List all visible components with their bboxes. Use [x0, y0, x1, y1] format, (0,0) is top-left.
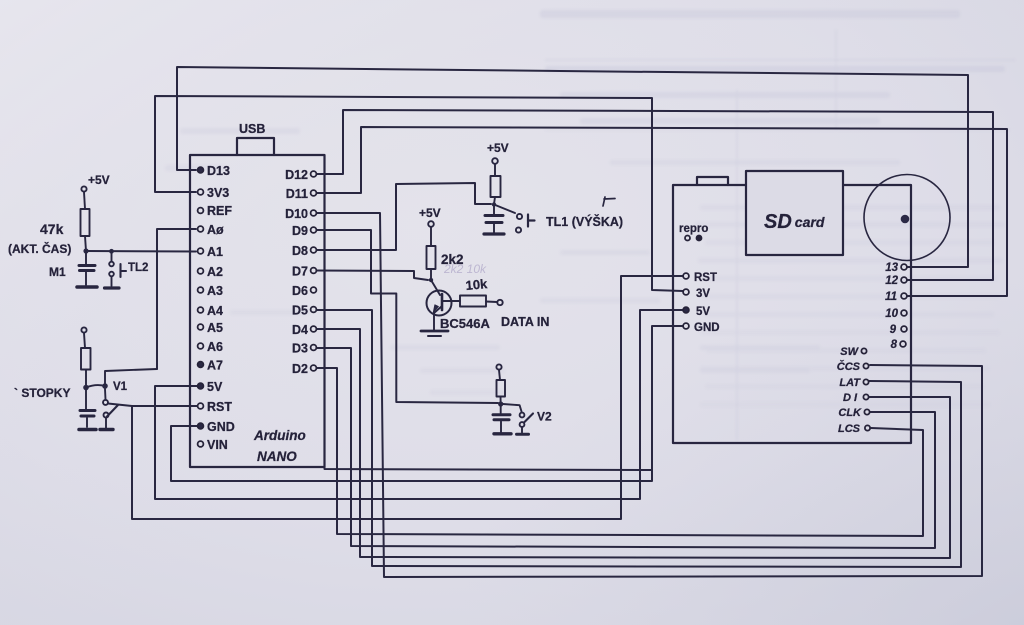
svg-text:GND: GND: [207, 420, 235, 434]
svg-text:10: 10: [885, 308, 898, 320]
svg-text:NANO: NANO: [257, 449, 297, 464]
svg-text:V2: V2: [537, 410, 552, 424]
svg-text:A2: A2: [207, 265, 223, 279]
svg-text:D7: D7: [292, 265, 308, 279]
svg-text:D11: D11: [286, 187, 308, 201]
svg-text:10k: 10k: [465, 276, 489, 293]
svg-text:LAT: LAT: [839, 377, 861, 389]
svg-text:A3: A3: [207, 284, 223, 298]
svg-text:D9: D9: [292, 224, 308, 238]
svg-text:D4: D4: [292, 323, 308, 337]
svg-text:TL1 (VÝŠKA): TL1 (VÝŠKA): [546, 214, 623, 229]
svg-text:12: 12: [885, 275, 898, 287]
svg-text:M1: M1: [49, 265, 66, 279]
svg-text:(AKT. ČAS): (AKT. ČAS): [8, 241, 71, 256]
svg-text:repro: repro: [679, 223, 708, 235]
svg-text:RST: RST: [694, 272, 717, 284]
svg-text:A5: A5: [207, 321, 223, 335]
svg-text:D10: D10: [285, 207, 308, 221]
svg-text:A1: A1: [207, 245, 223, 259]
svg-text:5V: 5V: [696, 306, 710, 318]
svg-text:5V: 5V: [207, 380, 223, 394]
svg-text:CLK: CLK: [838, 407, 862, 419]
svg-text:A4: A4: [207, 304, 223, 318]
svg-text:DATA IN: DATA IN: [501, 315, 549, 329]
svg-text:D I: D I: [843, 392, 858, 404]
svg-text:V1: V1: [113, 381, 128, 393]
svg-text:13: 13: [885, 262, 898, 274]
svg-text:GND: GND: [694, 322, 720, 334]
svg-text:D12: D12: [285, 168, 308, 182]
svg-text:USB: USB: [239, 122, 265, 136]
svg-text:D8: D8: [292, 244, 308, 258]
svg-text:8: 8: [891, 339, 898, 351]
svg-text:Aø: Aø: [207, 223, 224, 237]
svg-text:REF: REF: [207, 204, 232, 218]
svg-text:47k: 47k: [40, 221, 64, 237]
svg-text:D6: D6: [292, 284, 308, 298]
svg-text:A6: A6: [207, 340, 223, 354]
svg-text:SW: SW: [840, 346, 859, 358]
svg-text:D2: D2: [292, 362, 308, 376]
svg-text:+5V: +5V: [419, 206, 441, 220]
svg-text:` STOPKY: ` STOPKY: [14, 386, 70, 400]
svg-text:Arduino: Arduino: [253, 428, 306, 443]
svg-text:D13: D13: [207, 164, 230, 178]
svg-text:3V3: 3V3: [207, 186, 229, 200]
svg-text:VIN: VIN: [207, 438, 228, 452]
svg-text:+5V: +5V: [88, 173, 110, 187]
svg-text:SDcard: SDcard: [764, 211, 825, 233]
svg-text:ČCS: ČCS: [837, 360, 861, 373]
svg-text:9: 9: [890, 324, 897, 336]
svg-text:+5V: +5V: [487, 141, 509, 155]
svg-text:11: 11: [885, 291, 897, 303]
svg-text:TL2: TL2: [128, 262, 148, 274]
svg-text:RST: RST: [207, 400, 232, 414]
svg-text:LCS: LCS: [838, 423, 861, 435]
svg-text:A7: A7: [207, 359, 223, 373]
svg-text:3V: 3V: [696, 288, 710, 300]
svg-text:D5: D5: [292, 304, 308, 318]
svg-text:2k2 10k: 2k2 10k: [443, 262, 487, 276]
svg-text:D3: D3: [292, 342, 308, 356]
svg-text:BC546A: BC546A: [440, 316, 490, 331]
